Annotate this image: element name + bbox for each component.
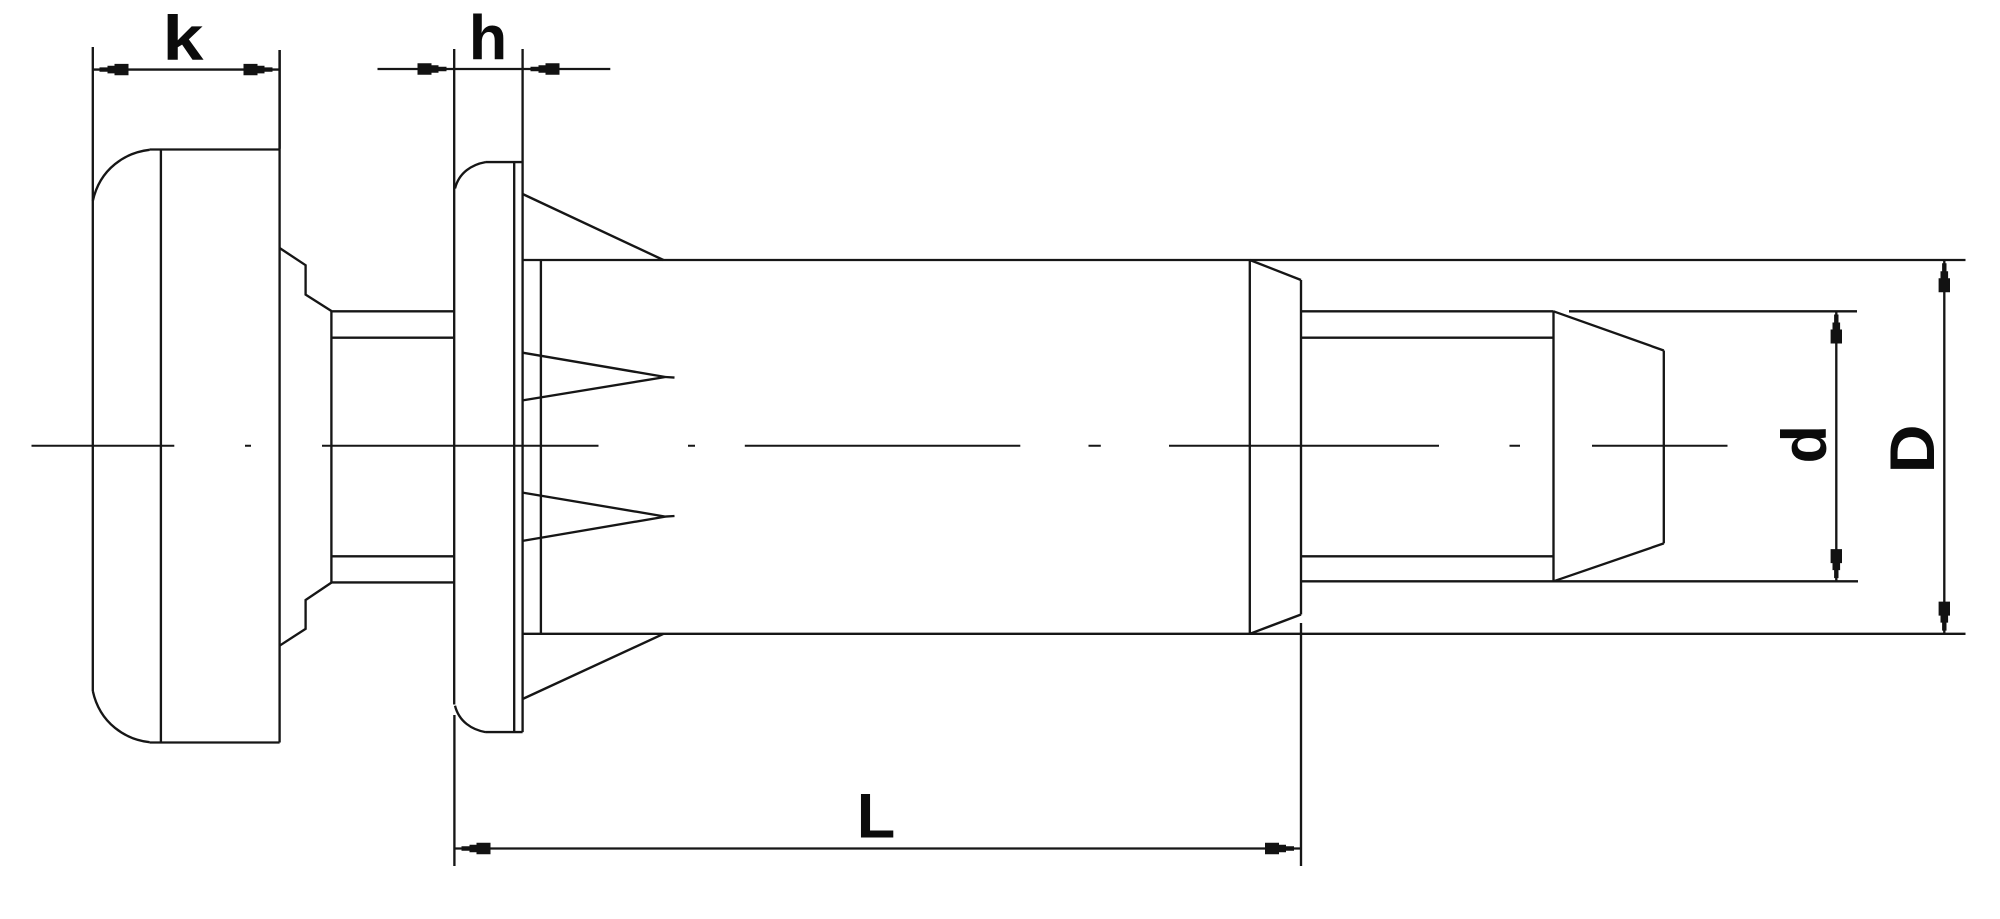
bevel cone between head and neck (280, 248, 332, 646)
body bottom line + D extension line (523, 633, 1966, 635)
thread outer bottom line (1301, 580, 1858, 582)
k dimension line (92, 68, 279, 70)
head right edge (278, 50, 280, 743)
washer inner right line (513, 162, 515, 732)
svg-text:D: D (1878, 424, 1948, 473)
d arrow bottom (1831, 549, 1842, 578)
dimension k (92, 50, 279, 149)
L arrow left (462, 843, 491, 854)
k arrow right (244, 64, 273, 75)
h arrow left (outside) (418, 63, 447, 74)
body top line + D extension line (523, 259, 1966, 261)
washer top-left arc (455, 162, 486, 188)
neck left edge (330, 311, 332, 583)
dimension h (378, 68, 611, 70)
k right extension line top (278, 50, 280, 149)
tooth apex tail upper (665, 376, 674, 379)
neck inner bottom line (331, 555, 454, 557)
washer flange (454, 49, 522, 732)
L dimension line (454, 847, 1301, 849)
neck outer top line (331, 310, 454, 312)
centerline (axis) (32, 445, 1728, 447)
d arrow top (1831, 315, 1842, 344)
washer top edge (486, 161, 523, 163)
svg-text:d: d (1770, 425, 1840, 463)
tail bottom chamfer (1250, 615, 1301, 634)
head left edge / k extension line (92, 47, 94, 691)
d dimension line (1835, 311, 1837, 581)
svg-text:L: L (857, 782, 895, 852)
bottom bevel (280, 583, 332, 646)
tip bottom chamfer (1554, 543, 1664, 581)
D arrow bottom (1939, 602, 1950, 631)
thread inner top line (1301, 337, 1554, 339)
h arrow right (outside) (531, 63, 560, 74)
neck outer bottom line (331, 581, 454, 583)
grip tooth upper (523, 353, 666, 401)
dimension d (1569, 311, 1857, 581)
d top extension line (1569, 310, 1857, 312)
grip tooth lower (523, 493, 666, 541)
head top edge (150, 148, 280, 150)
tip top chamfer (1554, 311, 1664, 350)
body right edge (1249, 260, 1251, 634)
stud tip cone (1554, 311, 1664, 581)
washer right face + h extension line (521, 49, 523, 732)
neck inner top line (331, 337, 454, 339)
anchor body (523, 260, 1966, 634)
D arrow top (1939, 263, 1950, 292)
screw head (pan head, left) (93, 47, 280, 743)
washer bottom edge (486, 731, 523, 733)
tail top chamfer (1250, 260, 1301, 280)
tail piece chamfers (1250, 260, 1301, 634)
neck section (331, 311, 454, 583)
L right extension line (1300, 623, 1302, 866)
cone from washer to body, top (523, 194, 664, 260)
h dimension line (378, 68, 611, 70)
tip face (1663, 351, 1665, 544)
thread end face (1552, 311, 1554, 581)
head bottom edge (150, 741, 280, 743)
thread inner bottom line (1301, 555, 1554, 557)
top bevel (280, 248, 332, 311)
thread outer top line (1301, 310, 1554, 312)
svg-text:k: k (163, 4, 205, 74)
head dome separation line (160, 150, 162, 743)
D dimension line (1943, 260, 1945, 634)
L arrow right (1265, 843, 1294, 854)
washer left edge + h extension line (453, 49, 455, 705)
cone from washer to body, bottom (523, 634, 664, 699)
head top-left arc (93, 150, 150, 201)
dimension D (1943, 260, 1945, 634)
L left extension line (453, 715, 455, 866)
dimension L (454, 623, 1301, 866)
tail right face (1300, 280, 1302, 615)
body left edge (540, 260, 542, 634)
tooth apex tail lower (665, 515, 674, 518)
head bottom-left arc (93, 691, 150, 742)
k arrow left (100, 64, 129, 75)
threaded stud (1301, 311, 1858, 581)
svg-text:h: h (469, 3, 507, 73)
washer bottom-left arc (455, 706, 486, 732)
